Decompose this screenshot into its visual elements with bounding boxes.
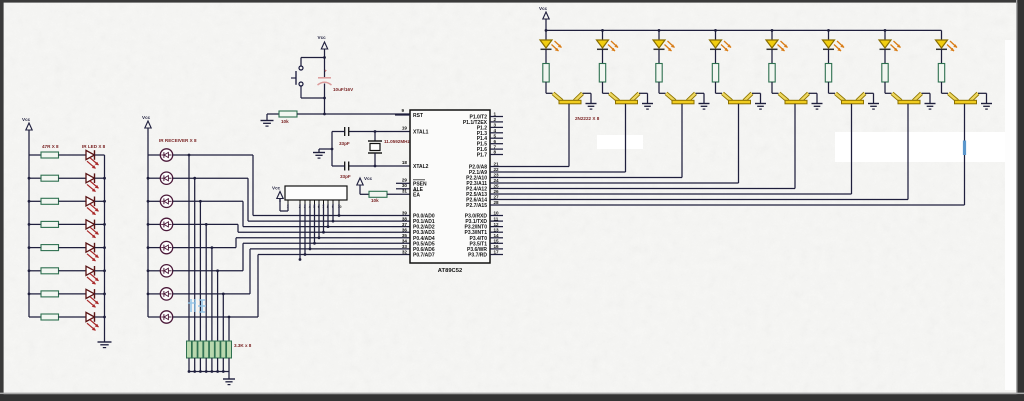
svg-text:9: 9 (401, 108, 404, 113)
svg-text:10k: 10k (281, 119, 289, 124)
svg-text:3: 3 (494, 123, 497, 128)
svg-text:1: 1 (494, 112, 497, 117)
svg-text:14: 14 (494, 233, 500, 238)
svg-text:15: 15 (494, 239, 500, 244)
svg-text:IR LED X 8: IR LED X 8 (82, 144, 106, 149)
svg-text:6: 6 (494, 139, 497, 144)
svg-text:13: 13 (494, 227, 500, 232)
svg-text:29: 29 (402, 178, 408, 183)
svg-text:33pF: 33pF (340, 174, 351, 179)
svg-text:39: 39 (402, 211, 408, 216)
svg-text:Vcc: Vcc (539, 6, 548, 11)
svg-text:RST: RST (413, 113, 423, 119)
svg-text:11.0592MHz: 11.0592MHz (384, 139, 410, 144)
svg-text:30: 30 (402, 183, 408, 188)
svg-text:P1.7: P1.7 (477, 153, 488, 159)
svg-text:P2.7/A15: P2.7/A15 (466, 203, 487, 209)
svg-text:3.3K x 8: 3.3K x 8 (234, 343, 252, 348)
svg-text:2: 2 (494, 117, 497, 122)
svg-text:19: 19 (402, 126, 408, 131)
svg-text:18: 18 (402, 160, 408, 165)
svg-text:7: 7 (494, 144, 497, 149)
svg-text:47R X 8: 47R X 8 (42, 144, 59, 149)
svg-text:35: 35 (402, 233, 408, 238)
svg-text:36: 36 (402, 227, 408, 232)
svg-text:10: 10 (494, 211, 500, 216)
svg-text:8: 8 (494, 150, 497, 155)
svg-text:34: 34 (402, 239, 408, 244)
svg-text:10k: 10k (371, 198, 379, 203)
svg-text:P3.7/RD: P3.7/RD (468, 253, 487, 259)
svg-text:38: 38 (402, 216, 408, 221)
svg-text:4: 4 (494, 128, 497, 133)
svg-text:P0.7/AD7: P0.7/AD7 (413, 253, 435, 259)
svg-text:EA: EA (413, 192, 420, 198)
svg-text:32: 32 (402, 250, 408, 255)
svg-text:AT89C52: AT89C52 (438, 268, 462, 274)
svg-text:Vcc: Vcc (272, 186, 281, 191)
svg-text:5: 5 (494, 133, 497, 138)
svg-text:17: 17 (494, 250, 500, 255)
svg-text:16: 16 (494, 244, 500, 249)
svg-text:IR RECEIVER X 8: IR RECEIVER X 8 (159, 138, 197, 143)
svg-text:12: 12 (494, 222, 500, 227)
svg-text:31: 31 (402, 189, 408, 194)
svg-text:33: 33 (402, 244, 408, 249)
svg-text:Vcc: Vcc (22, 117, 31, 122)
svg-text:Vcc: Vcc (142, 115, 151, 120)
svg-text:XTAL2: XTAL2 (413, 164, 429, 170)
svg-text:11: 11 (494, 216, 499, 221)
svg-text:10uF/16V: 10uF/16V (333, 87, 354, 92)
svg-text:XTAL1: XTAL1 (413, 130, 429, 136)
svg-text:Vcc: Vcc (364, 176, 373, 181)
svg-text:2N2222 X 8: 2N2222 X 8 (575, 116, 600, 121)
svg-text:33pF: 33pF (339, 141, 350, 146)
svg-text:37: 37 (402, 222, 408, 227)
svg-text:Vcc: Vcc (318, 35, 327, 40)
